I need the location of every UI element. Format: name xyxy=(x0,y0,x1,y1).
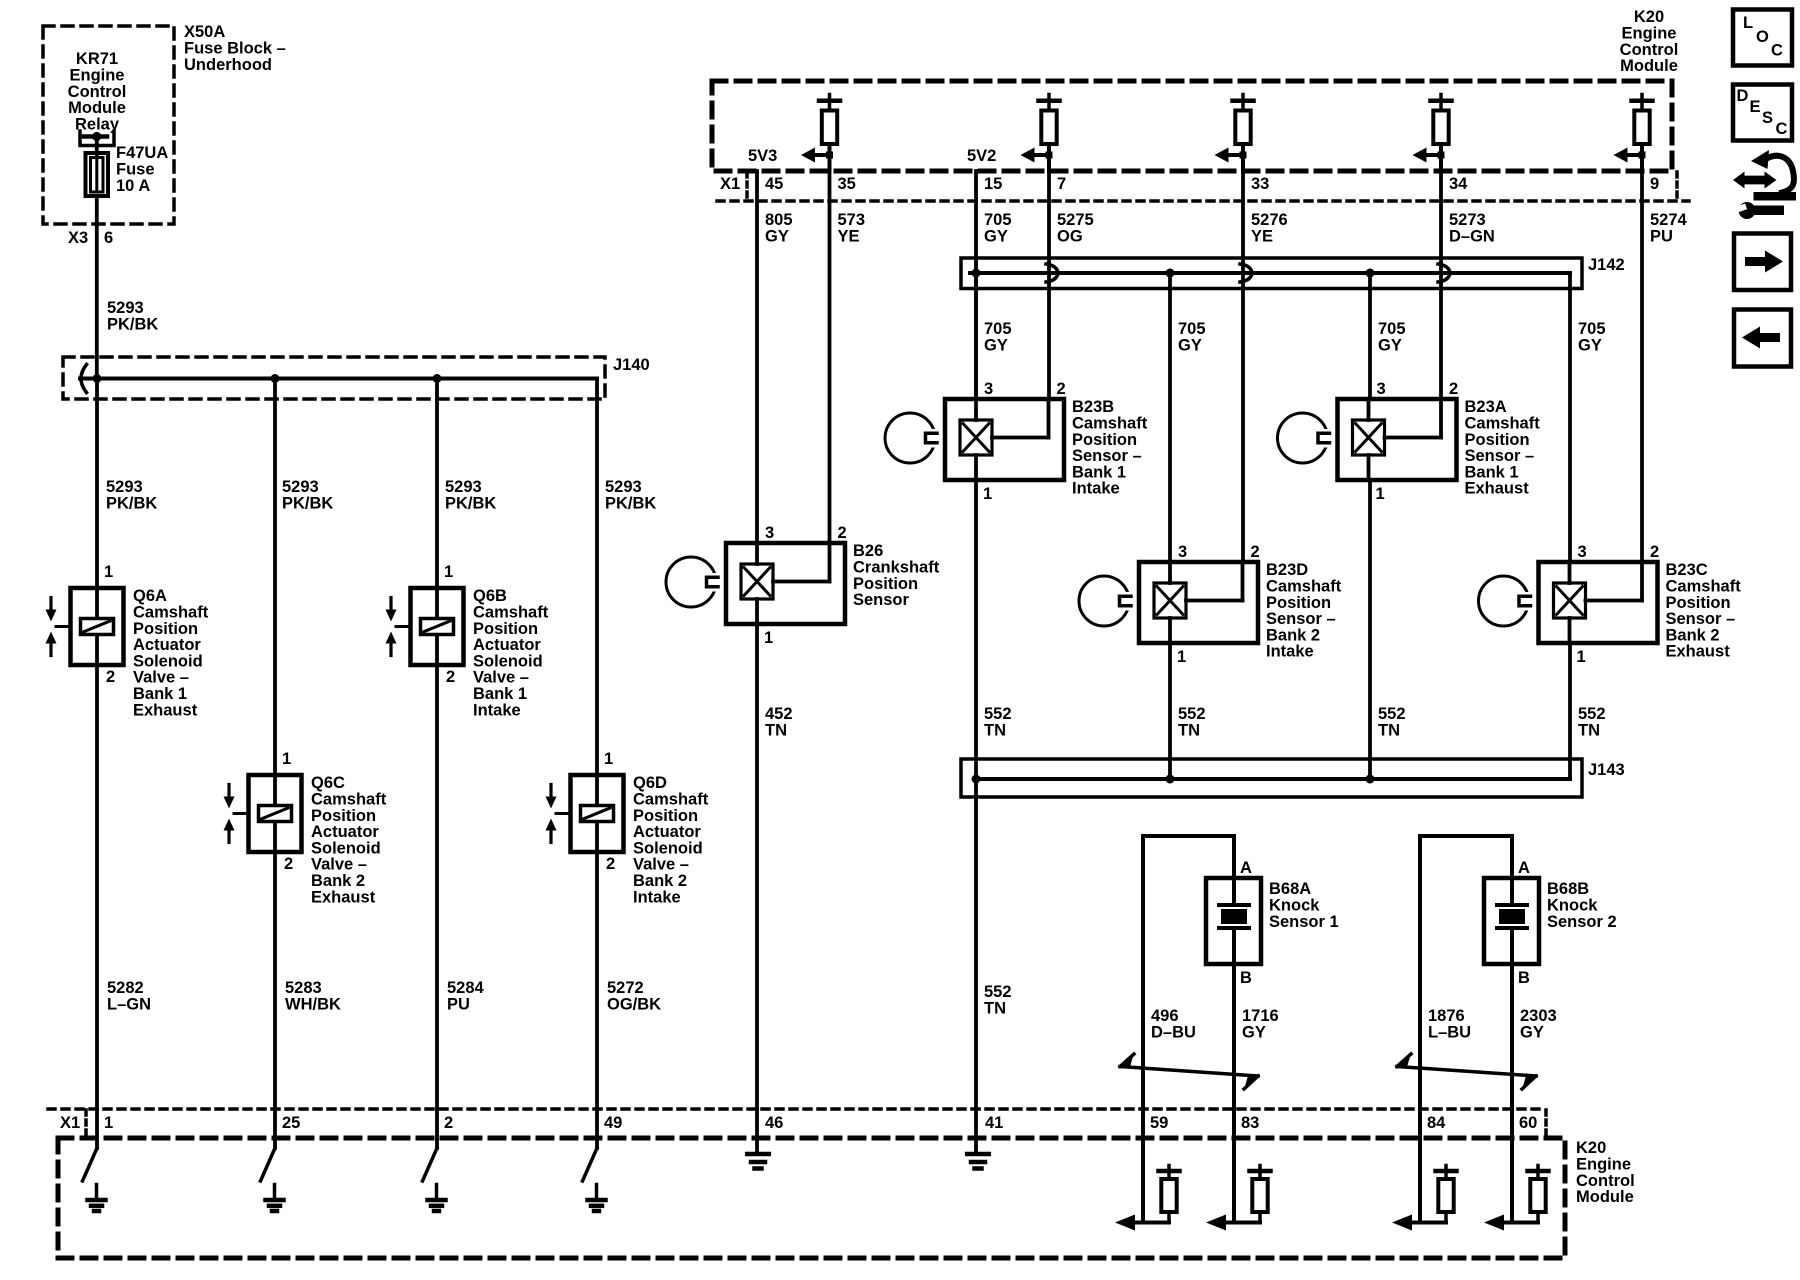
svg-text:TN: TN xyxy=(1378,722,1400,740)
junction node J142 to B23A xyxy=(1366,269,1375,278)
knock sensor B68B knock sensor 2 box xyxy=(1484,878,1539,964)
svg-text:J143: J143 xyxy=(1588,761,1625,779)
svg-text:Position: Position xyxy=(133,620,198,638)
splice J140 bus wire xyxy=(80,377,597,381)
knock sensor B68A knock sensor 1 box xyxy=(1206,878,1261,964)
svg-text:705: 705 xyxy=(1378,320,1406,338)
svg-text:Intake: Intake xyxy=(633,888,681,906)
svg-text:5272: 5272 xyxy=(607,979,644,997)
direction arrow at resistor x=1642 xyxy=(1622,153,1642,157)
svg-text:1: 1 xyxy=(104,1114,113,1132)
ground termination x=275 xyxy=(261,1148,276,1181)
valve pintle arrows Q6C xyxy=(227,785,230,799)
ECM input resistor at x=1143 xyxy=(1141,1148,1145,1223)
ground termination x=597 xyxy=(583,1148,598,1181)
svg-text:Position: Position xyxy=(1266,594,1331,612)
splice feed paren xyxy=(81,365,87,393)
sensor B23B camshaft position sensor bank1 intake outer box xyxy=(945,399,1064,480)
svg-text:84: 84 xyxy=(1427,1114,1446,1132)
svg-text:Camshaft: Camshaft xyxy=(633,791,709,809)
svg-text:Q6D: Q6D xyxy=(633,774,667,792)
svg-text:Camshaft: Camshaft xyxy=(311,791,387,809)
svg-text:Module: Module xyxy=(1620,57,1678,75)
solenoid valve Q6C xyxy=(249,775,302,852)
svg-text:Exhaust: Exhaust xyxy=(1666,643,1731,661)
svg-text:2303: 2303 xyxy=(1520,1007,1557,1025)
svg-text:B: B xyxy=(1240,969,1252,987)
sensor B26 crankshaft position sensor pin1 internal wire xyxy=(755,599,759,624)
svg-text:Intake: Intake xyxy=(1266,643,1314,661)
svg-text:Q6B: Q6B xyxy=(473,587,507,605)
svg-text:2: 2 xyxy=(446,668,455,686)
svg-text:D–BU: D–BU xyxy=(1151,1024,1196,1042)
resistor (5V pull-up) at pin wire x=829.5 xyxy=(828,95,832,99)
svg-text:Engine: Engine xyxy=(1621,25,1676,43)
svg-text:GY: GY xyxy=(1378,337,1402,355)
svg-text:B23B: B23B xyxy=(1072,398,1114,416)
junction node on J140 bus xyxy=(93,374,102,383)
junction node J142 to B23D xyxy=(1166,269,1175,278)
svg-text:Bank 1: Bank 1 xyxy=(133,685,187,703)
svg-text:GY: GY xyxy=(1578,337,1602,355)
svg-text:PK/BK: PK/BK xyxy=(605,495,656,513)
svg-text:60: 60 xyxy=(1519,1114,1537,1132)
svg-text:B26: B26 xyxy=(853,542,883,560)
resistor (5V pull-up) at pin wire x=1049 xyxy=(1047,95,1051,99)
svg-text:TN: TN xyxy=(984,722,1006,740)
svg-text:TN: TN xyxy=(984,1000,1006,1018)
svg-text:GY: GY xyxy=(1242,1024,1266,1042)
splice J142 bus wire xyxy=(970,271,1570,275)
svg-text:OG/BK: OG/BK xyxy=(607,996,661,1014)
wire B23D pin1 552 TN to J143 xyxy=(1168,643,1172,779)
icon arrow-right box xyxy=(1734,234,1791,291)
direction arrow at resistor x=1441 xyxy=(1421,153,1441,157)
svg-text:A: A xyxy=(1518,859,1530,877)
svg-text:2: 2 xyxy=(606,855,615,873)
splice pack J142 box xyxy=(961,258,1582,289)
svg-text:1: 1 xyxy=(1577,648,1586,666)
svg-text:Bank 2: Bank 2 xyxy=(633,872,687,890)
svg-text:49: 49 xyxy=(604,1114,622,1132)
wire J140 to Q6D xyxy=(595,379,599,776)
svg-text:83: 83 xyxy=(1241,1114,1259,1132)
svg-text:9: 9 xyxy=(1650,175,1659,193)
svg-text:X50A: X50A xyxy=(184,23,225,41)
valve pintle arrows Q6A xyxy=(49,598,52,612)
svg-text:Intake: Intake xyxy=(473,701,521,719)
sensor B23B camshaft position sensor bank1 intake element box with X xyxy=(960,420,992,455)
svg-text:3: 3 xyxy=(1178,543,1187,561)
svg-text:TN: TN xyxy=(1578,722,1600,740)
svg-text:705: 705 xyxy=(1578,320,1606,338)
svg-text:5283: 5283 xyxy=(285,979,322,997)
svg-text:2: 2 xyxy=(444,1114,453,1132)
twisted pair symbol xyxy=(1397,1067,1536,1077)
sensor B26 crankshaft position sensor pin2 internal wire xyxy=(828,543,832,582)
knock sensor B68B knock sensor 2 loop wire xyxy=(1420,834,1512,838)
svg-text:Underhood: Underhood xyxy=(184,56,272,74)
wire Q6C to X1 pin 25 xyxy=(273,852,277,1148)
svg-text:Position: Position xyxy=(1072,431,1137,449)
svg-text:J142: J142 xyxy=(1588,256,1625,274)
wire Q6D to X1 pin 49 xyxy=(595,852,599,1148)
svg-text:WH/BK: WH/BK xyxy=(285,996,341,1014)
wire B26 pin1 452 TN to pin 46 xyxy=(755,624,759,1151)
ground inside ECM x=758 xyxy=(747,1152,769,1157)
svg-text:59: 59 xyxy=(1150,1114,1168,1132)
svg-text:Sensor –: Sensor – xyxy=(1465,447,1535,465)
junction node on J140 bus xyxy=(271,374,280,383)
wire B68A knock sensor 1 pin B down xyxy=(1232,964,1236,1148)
svg-text:552: 552 xyxy=(1578,705,1606,723)
sensor B23A camshaft position sensor bank1 exhaust element box with X xyxy=(1353,420,1385,455)
wire J140 to Q6C xyxy=(273,379,277,776)
svg-text:Crankshaft: Crankshaft xyxy=(853,559,940,577)
svg-text:J140: J140 xyxy=(613,356,650,374)
svg-text:552: 552 xyxy=(984,983,1012,1001)
svg-text:GY: GY xyxy=(984,228,1008,246)
sensor B23D camshaft position sensor bank2 intake element box with X xyxy=(1154,583,1186,618)
ECM K20 bottom dashed box xyxy=(58,1138,1565,1258)
svg-text:Module: Module xyxy=(1576,1188,1634,1206)
fuse F47UA xyxy=(86,153,109,196)
svg-text:Solenoid: Solenoid xyxy=(473,652,543,670)
ECM input resistor at x=1234 xyxy=(1232,1148,1236,1223)
svg-text:2: 2 xyxy=(1650,543,1659,561)
resistor (5V pull-up) at pin wire x=1243 xyxy=(1241,95,1245,99)
sensor B26 crankshaft position sensor reluctor circle xyxy=(666,557,716,607)
svg-text:Q6A: Q6A xyxy=(133,587,167,605)
svg-text:Sensor –: Sensor – xyxy=(1266,610,1336,628)
svg-text:B: B xyxy=(1518,969,1530,987)
sensor B23C camshaft position sensor bank2 exhaust pin2 internal wire xyxy=(1640,562,1644,601)
svg-text:Solenoid: Solenoid xyxy=(633,839,703,857)
sensor B23A camshaft position sensor bank1 exhaust reluctor circle xyxy=(1278,413,1328,463)
svg-text:GY: GY xyxy=(1520,1024,1544,1042)
svg-text:705: 705 xyxy=(984,211,1012,229)
sensor B23C camshaft position sensor bank2 exhaust reluctor circle xyxy=(1479,576,1529,626)
svg-text:573: 573 xyxy=(838,211,866,229)
svg-text:3: 3 xyxy=(984,380,993,398)
svg-text:Camshaft: Camshaft xyxy=(1072,415,1148,433)
svg-text:Valve –: Valve – xyxy=(473,669,529,687)
svg-text:D: D xyxy=(1737,87,1749,105)
valve pintle arrows Q6B xyxy=(389,598,392,612)
svg-text:1876: 1876 xyxy=(1428,1007,1465,1025)
wire J142 to B23D pin3 (705 GY) xyxy=(1168,273,1172,562)
svg-text:S: S xyxy=(1762,109,1773,127)
svg-text:5282: 5282 xyxy=(107,979,144,997)
svg-text:Control: Control xyxy=(1620,41,1679,59)
svg-text:452: 452 xyxy=(765,705,793,723)
resistor (5V pull-up) at pin wire x=1642 xyxy=(1640,95,1644,99)
svg-text:B23D: B23D xyxy=(1266,561,1308,579)
sensor B23B camshaft position sensor bank1 intake pin2 internal wire xyxy=(1047,399,1051,438)
solenoid valve Q6D xyxy=(571,775,624,852)
junction node J143 B23D xyxy=(1166,775,1175,784)
svg-text:2: 2 xyxy=(838,524,847,542)
svg-text:Actuator: Actuator xyxy=(133,636,201,654)
junction node J143 B23A xyxy=(1366,775,1375,784)
svg-text:Sensor: Sensor xyxy=(853,591,910,609)
wire J140 to Q6B xyxy=(435,379,439,589)
svg-text:B23C: B23C xyxy=(1666,561,1708,579)
svg-text:Actuator: Actuator xyxy=(633,823,701,841)
svg-text:Camshaft: Camshaft xyxy=(1465,415,1541,433)
svg-text:E: E xyxy=(1750,98,1761,116)
svg-text:496: 496 xyxy=(1151,1007,1179,1025)
ground termination x=97 xyxy=(83,1148,98,1181)
sensor B23A camshaft position sensor bank1 exhaust pin1 internal wire xyxy=(1367,455,1371,480)
svg-text:Engine: Engine xyxy=(1576,1156,1631,1174)
svg-text:Bank 2: Bank 2 xyxy=(1666,626,1720,644)
svg-text:1: 1 xyxy=(1376,485,1385,503)
svg-text:Solenoid: Solenoid xyxy=(133,652,203,670)
svg-text:15: 15 xyxy=(984,175,1002,193)
wire 573 YE xyxy=(828,155,832,543)
svg-text:5V3: 5V3 xyxy=(748,147,777,165)
svg-text:2: 2 xyxy=(284,855,293,873)
sensor B23B camshaft position sensor bank1 intake reluctor circle xyxy=(885,413,935,463)
sensor B23D camshaft position sensor bank2 intake pin3 internal wire xyxy=(1168,562,1172,583)
svg-text:Position: Position xyxy=(1465,431,1530,449)
svg-text:Actuator: Actuator xyxy=(473,636,541,654)
junction node J143/552TN xyxy=(972,775,981,784)
svg-text:Valve –: Valve – xyxy=(311,856,367,874)
svg-text:Camshaft: Camshaft xyxy=(473,604,549,622)
svg-text:PK/BK: PK/BK xyxy=(106,495,157,513)
bus corner down to B23C xyxy=(1568,273,1572,562)
svg-text:C: C xyxy=(1776,120,1788,138)
svg-text:Position: Position xyxy=(1666,594,1731,612)
wire J142 to B23B pin3 (705 GY) xyxy=(974,273,978,399)
svg-text:2: 2 xyxy=(106,668,115,686)
svg-text:Position: Position xyxy=(633,807,698,825)
svg-text:L: L xyxy=(1743,14,1753,32)
svg-text:552: 552 xyxy=(1378,705,1406,723)
svg-text:O: O xyxy=(1756,28,1769,46)
wire 5273 D-GN xyxy=(1439,155,1443,399)
svg-text:Sensor –: Sensor – xyxy=(1666,610,1736,628)
svg-text:1716: 1716 xyxy=(1242,1007,1279,1025)
svg-text:5293: 5293 xyxy=(445,478,482,496)
sensor B23C camshaft position sensor bank2 exhaust outer box xyxy=(1539,562,1658,643)
svg-text:PK/BK: PK/BK xyxy=(282,495,333,513)
direction arrow at resistor x=1049 xyxy=(1029,153,1049,157)
sensor B23A camshaft position sensor bank1 exhaust pin3 internal wire xyxy=(1367,399,1371,420)
svg-text:35: 35 xyxy=(838,175,856,193)
svg-text:Engine: Engine xyxy=(69,67,124,85)
wire 5274 PU xyxy=(1640,155,1644,562)
svg-text:Exhaust: Exhaust xyxy=(133,701,198,719)
resistor (5V pull-up) at pin wire x=1441 xyxy=(1439,95,1443,99)
svg-text:Actuator: Actuator xyxy=(311,823,379,841)
svg-text:Position: Position xyxy=(473,620,538,638)
svg-text:GY: GY xyxy=(765,228,789,246)
svg-text:K20: K20 xyxy=(1576,1139,1606,1157)
svg-text:3: 3 xyxy=(1578,543,1587,561)
svg-text:GY: GY xyxy=(984,337,1008,355)
wire Q6A to X1 pin 1 xyxy=(95,665,99,1148)
icon repair/tools xyxy=(1733,150,1777,189)
splice pack J140 dashed box xyxy=(63,357,605,399)
svg-text:B68A: B68A xyxy=(1269,880,1311,898)
svg-text:B68B: B68B xyxy=(1547,880,1589,898)
twisted pair symbol xyxy=(1120,1067,1258,1077)
svg-text:Position: Position xyxy=(311,807,376,825)
wire B23C pin1 552 TN to J143 xyxy=(1568,643,1572,779)
svg-text:Bank 1: Bank 1 xyxy=(1465,463,1519,481)
ECM input resistor at x=1420 xyxy=(1418,1148,1422,1223)
svg-text:PU: PU xyxy=(1650,228,1673,246)
svg-text:Camshaft: Camshaft xyxy=(1666,578,1742,596)
svg-text:2: 2 xyxy=(1251,543,1260,561)
svg-text:5284: 5284 xyxy=(447,979,485,997)
svg-text:1: 1 xyxy=(444,563,453,581)
svg-text:Fuse Block –: Fuse Block – xyxy=(184,40,286,58)
svg-text:5275: 5275 xyxy=(1057,211,1094,229)
svg-text:1: 1 xyxy=(104,563,113,581)
sensor B26 crankshaft position sensor outer box xyxy=(726,543,845,624)
svg-text:Bank 1: Bank 1 xyxy=(1072,463,1126,481)
svg-text:2: 2 xyxy=(1057,380,1066,398)
svg-text:Position: Position xyxy=(853,575,918,593)
ground inside ECM x=978 xyxy=(967,1152,989,1157)
svg-text:X1: X1 xyxy=(720,175,740,193)
svg-text:1: 1 xyxy=(764,629,773,647)
wire J143 to X1 pin 41 (552 TN) xyxy=(974,779,978,1151)
solenoid valve Q6A xyxy=(71,588,124,665)
crossover chevron at x=1441 xyxy=(1438,264,1450,282)
icon LOC box xyxy=(1733,10,1792,66)
svg-text:Bank 2: Bank 2 xyxy=(311,872,365,890)
sensor B23C camshaft position sensor bank2 exhaust pin1 internal wire xyxy=(1568,618,1572,643)
svg-text:1: 1 xyxy=(983,485,992,503)
svg-text:TN: TN xyxy=(765,722,787,740)
svg-text:GY: GY xyxy=(1178,337,1202,355)
svg-text:5274: 5274 xyxy=(1650,211,1688,229)
svg-text:Control: Control xyxy=(68,83,127,101)
valve pintle arrows Q6D xyxy=(549,785,552,799)
svg-text:Sensor 2: Sensor 2 xyxy=(1547,913,1617,931)
sensor B23D camshaft position sensor bank2 intake outer box xyxy=(1139,562,1258,643)
svg-text:5V2: 5V2 xyxy=(967,147,996,165)
svg-text:3: 3 xyxy=(765,524,774,542)
wire 5V3 / 805 GY xyxy=(755,171,759,543)
svg-text:B23A: B23A xyxy=(1465,398,1507,416)
svg-text:1: 1 xyxy=(282,750,291,768)
fuse block X50A dashed box xyxy=(43,26,174,224)
ECM K20 top dashed box xyxy=(712,81,1672,171)
svg-text:X3: X3 xyxy=(68,229,88,247)
sensor B23B camshaft position sensor bank1 intake pin1 internal wire xyxy=(974,455,978,480)
direction arrow at resistor x=829.5 xyxy=(810,153,830,157)
svg-text:705: 705 xyxy=(1178,320,1206,338)
svg-text:Module: Module xyxy=(68,99,126,117)
sensor B26 crankshaft position sensor element box with X xyxy=(741,564,773,599)
svg-text:Sensor –: Sensor – xyxy=(1072,447,1142,465)
wire J140 to Q6A xyxy=(95,379,99,589)
svg-text:2: 2 xyxy=(1449,380,1458,398)
wire B23A pin1 552 TN to J143 xyxy=(1368,480,1372,779)
wire B23B pin1 552 TN to J143 xyxy=(974,480,978,779)
wire relay to fuse xyxy=(95,138,99,154)
svg-text:F47UA: F47UA xyxy=(116,144,168,162)
svg-text:L–GN: L–GN xyxy=(107,996,151,1014)
svg-text:805: 805 xyxy=(765,211,793,229)
svg-text:5293: 5293 xyxy=(106,478,143,496)
junction node J142/5V2 xyxy=(972,269,981,278)
crossover chevron at x=1243 xyxy=(1240,264,1252,282)
svg-text:33: 33 xyxy=(1251,175,1269,193)
knock sensor B68A knock sensor 1 piezo element xyxy=(1232,878,1236,905)
svg-text:5293: 5293 xyxy=(605,478,642,496)
svg-text:552: 552 xyxy=(984,705,1012,723)
sensor B23C camshaft position sensor bank2 exhaust pin3 internal wire xyxy=(1568,562,1572,583)
wire 5275 OG xyxy=(1047,155,1051,399)
svg-text:Bank 2: Bank 2 xyxy=(1266,626,1320,644)
knock sensor B68B knock sensor 2 piezo element xyxy=(1510,878,1514,905)
icon arrow-left box xyxy=(1734,310,1791,367)
junction node on J140 bus xyxy=(433,374,442,383)
svg-text:Knock: Knock xyxy=(1269,897,1320,915)
ECM input resistor at x=1512 xyxy=(1510,1148,1514,1223)
sensor B23D camshaft position sensor bank2 intake pin2 internal wire xyxy=(1241,562,1245,601)
svg-text:Valve –: Valve – xyxy=(133,669,189,687)
svg-text:46: 46 xyxy=(765,1114,783,1132)
svg-text:D–GN: D–GN xyxy=(1449,228,1495,246)
svg-text:25: 25 xyxy=(282,1114,300,1132)
svg-text:Camshaft: Camshaft xyxy=(1266,578,1342,596)
svg-text:TN: TN xyxy=(1178,722,1200,740)
sensor B23D camshaft position sensor bank2 intake reluctor circle xyxy=(1079,576,1129,626)
wire B68B knock sensor 2 pin B down xyxy=(1510,964,1514,1148)
svg-text:Camshaft: Camshaft xyxy=(133,604,209,622)
icon DESC box xyxy=(1733,85,1792,141)
svg-text:5293: 5293 xyxy=(282,478,319,496)
svg-text:1: 1 xyxy=(604,750,613,768)
svg-text:Bank 1: Bank 1 xyxy=(473,685,527,703)
svg-text:YE: YE xyxy=(838,228,860,246)
svg-text:6: 6 xyxy=(104,229,113,247)
svg-text:K20: K20 xyxy=(1634,8,1664,26)
sensor B23C camshaft position sensor bank2 exhaust element box with X xyxy=(1554,583,1586,618)
svg-text:PK/BK: PK/BK xyxy=(107,316,158,334)
svg-text:5276: 5276 xyxy=(1251,211,1288,229)
svg-text:5273: 5273 xyxy=(1449,211,1486,229)
relay KR71 contact symbol xyxy=(80,131,114,146)
svg-text:705: 705 xyxy=(984,320,1012,338)
wire 5V2 / 705 GY xyxy=(974,171,978,399)
svg-text:3: 3 xyxy=(1377,380,1386,398)
solenoid valve Q6B xyxy=(411,588,464,665)
svg-text:YE: YE xyxy=(1251,228,1273,246)
crossover chevron at x=1049 xyxy=(1046,264,1058,282)
svg-text:Knock: Knock xyxy=(1547,897,1598,915)
svg-text:OG: OG xyxy=(1057,228,1083,246)
svg-text:Q6C: Q6C xyxy=(311,774,345,792)
svg-text:Valve –: Valve – xyxy=(633,856,689,874)
svg-text:KR71: KR71 xyxy=(76,50,118,68)
svg-text:Exhaust: Exhaust xyxy=(311,888,376,906)
svg-text:PK/BK: PK/BK xyxy=(445,495,496,513)
wire Q6B to X1 pin 2 xyxy=(435,665,439,1148)
svg-text:10 A: 10 A xyxy=(116,177,150,195)
svg-text:C: C xyxy=(1771,42,1783,60)
svg-text:Exhaust: Exhaust xyxy=(1465,480,1530,498)
connector X1 bottom row xyxy=(48,1107,1546,1111)
